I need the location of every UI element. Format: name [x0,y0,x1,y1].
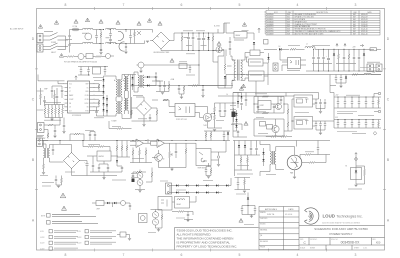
transformer T2 core [117,79,119,97]
c27 label [236,193,246,195]
wire c23 [219,141,227,165]
wire co4 [358,97,360,108]
capacitor CA5 plates [104,70,106,71]
wire caps bank [52,86,62,105]
diode DC4 body [103,97,105,99]
values out caps [337,111,357,113]
capacitor CO12 plates [372,123,374,124]
junction g4 [292,121,293,122]
r27 values [305,151,314,153]
junction h2 366 [365,118,368,121]
h top labels [346,94,360,96]
svg-text:7: 7 [123,3,125,7]
wire r32 [172,212,193,216]
led labels [148,232,156,234]
wire r10 r11 [208,103,223,128]
gate labels [94,80,102,82]
revision row X06 [267,28,368,31]
capacitor CF2 plates [178,88,180,89]
svg-text:8: 8 [65,3,67,7]
wire vert286 [285,93,287,97]
resistor R10b element [163,99,168,101]
MB2 circle [140,216,145,221]
revision row X04 [267,23,368,26]
capacitor C6 plates [229,48,231,49]
wire c26 [317,141,319,155]
r4 value [227,65,232,67]
wire u4 conns [254,97,278,105]
wire co11 [365,120,367,129]
bridge rectifier BR1 [153,32,170,49]
t4 label [40,175,48,177]
svg-text:CT: CT [69,91,71,93]
i text bottom2 [42,185,51,187]
label small right [348,188,362,190]
legend note 1 text [52,214,80,216]
svg-text:0034640: 0034640 [267,21,273,23]
transformer T2 winding C [116,101,117,114]
re5 label [112,125,121,127]
capacitor CX4 plates [109,39,112,40]
switch values [44,31,53,33]
capacitor CO5 plates [365,102,367,103]
legend row 1 col1 text2 [54,232,76,234]
junction bulk 203.5 [203,33,204,34]
capacitor CO8 plates [344,123,346,124]
svg-text:14-28V: 14-28V [40,237,45,239]
ground aux [161,93,164,95]
u6 label [296,97,308,99]
wire cg9 [324,121,326,130]
svg-text:X05: X05 [287,26,290,28]
transformer T4 winding B [48,148,49,158]
fb values [216,120,224,122]
capacitor CJ3 plates [205,170,207,171]
legend row 4 col1 text [54,247,78,249]
switch SW1 pole A [50,33,66,37]
capacitor C5 plates [229,41,231,42]
u10 label2 [131,177,138,179]
IC U8 body [97,151,111,161]
ground c14b [62,132,65,134]
wire u3 [200,107,208,129]
revision row X03 [267,20,368,23]
wire cg13 [245,93,247,107]
resistor R30 element [364,170,366,176]
diode DM1 body [176,184,178,186]
legend row 1 col2 text [90,230,116,232]
svg-text:08-14-09: 08-14-09 [361,14,368,16]
capacitor CE2 plates [43,100,45,101]
svg-text:PGN: PGN [85,110,88,112]
resistor RG3 element [263,112,269,114]
d row bottom labels [360,67,378,69]
svg-text:+18V: +18V [352,47,356,49]
svg-text:X01: X01 [287,17,290,19]
legend sample ground [128,239,131,241]
svg-text:COMP: COMP [69,99,73,101]
capacitor CG6 plates [324,102,326,103]
wire d5 [268,53,270,63]
choke L2 winding A [106,28,116,29]
wire y caps [100,44,102,52]
svg-text:POWER: POWER [51,42,56,44]
wire fan res [130,148,152,163]
wire t3 out [144,77,163,86]
relay K1 body [234,32,247,39]
wire rb2 [48,105,50,118]
l1 label [82,32,89,34]
resistor RJ2 element [151,172,153,177]
wire cg5 [320,99,322,109]
wire rg1 [231,124,242,130]
warning symbol W13 [239,219,243,223]
wire cd2 [318,49,320,71]
ground u8 [102,178,105,180]
junction dm1 [185,184,188,187]
capacitor CA1 plates [68,35,70,36]
l2 label [106,37,110,39]
junction lr 60 [59,139,62,142]
diode DC8 body [106,104,108,106]
wire rf2 [188,85,226,87]
K2 coil [177,199,185,200]
r17 values [88,143,100,145]
LED2 ring [152,219,158,225]
wire r24 down [159,143,187,167]
transistor Q3 body [155,154,163,162]
resistor RJ5 element [210,169,212,174]
wire cd6 [353,49,355,71]
m labels [244,224,254,226]
inductor L3 winding lower [119,42,125,51]
wire r30 [356,166,365,184]
capacitor C24 plates [250,148,252,149]
loop2 text [258,133,268,135]
svg-text:AC LINE INPUT: AC LINE INPUT [10,28,24,31]
inductor L3 winding upper [118,31,124,40]
svg-text:1 of 1: 1 of 1 [363,247,367,249]
S1 inner switch [199,152,207,162]
svg-text:REF: REF [86,84,89,86]
wire t1 pri [230,56,236,88]
resistor R20 [121,146,123,151]
junction a2 b [104,65,107,68]
svg-text:7: 7 [123,253,125,257]
transformer T1 primary [234,60,235,80]
junction h 366 [365,96,368,99]
IC U1 PWM controller [65,81,93,113]
resistor R2 [181,36,183,41]
diode DC1 body [103,79,105,81]
diode DK2 body [262,159,264,161]
wire opamps [130,139,172,145]
wire vert 318 [233,93,319,100]
capacitor CJ1 plates [175,151,177,152]
capacitor CO10 plates [358,123,360,124]
junction ac bus 1 [125,29,126,30]
resistor R23 [145,150,147,155]
svg-text:DESCRIPTION: DESCRIPTION [316,12,328,14]
ground leds [157,230,160,232]
fuse F1 [73,28,79,31]
inductor LH1 [364,73,371,74]
wire cb1 [137,65,200,71]
i top labels [85,129,94,131]
ground br2 [142,125,145,127]
transformer T2 winding D [121,101,122,114]
wire rj3 [205,131,207,141]
wire ci1 [117,166,122,172]
wire fb1 [377,48,382,50]
diode D13 element [355,171,357,173]
svg-text:KBU BRIDGE RECTIFIER: KBU BRIDGE RECTIFIER [154,52,170,54]
resistor RG1 element [232,123,238,125]
choke L1 winding B [83,42,93,43]
diode D1 body [207,37,209,39]
wire cy2 [125,30,127,52]
wire rb4 [55,105,57,118]
transformer T4 winding A [44,148,45,158]
transistor QG1 body [272,125,279,132]
bulk values [186,45,192,47]
crystal Y1 body [96,201,104,206]
svg-text:0034790: 0034790 [267,31,273,33]
re6 label [37,90,44,92]
resistor R6b [48,124,53,126]
junction rail85 a [202,85,203,86]
svg-text:01-22-10: 01-22-10 [361,29,368,31]
k values2 [237,173,253,175]
capacitor CG2 plates [273,106,275,107]
capacitor CF4 plates [189,68,191,69]
fan motor M1 [287,155,302,170]
junction lr 83 [82,139,85,142]
wire r6c [47,138,49,139]
capacitor CO11 plates [365,123,367,124]
wire c14 [54,125,56,136]
junction h2 373 [372,118,375,121]
transformer T1 core [236,60,238,81]
breaker CB1 body [138,62,144,68]
svg-text:L4: L4 [306,44,308,46]
legend note 1 text line2 [52,216,96,218]
transformer T3 winding A [138,75,139,88]
capacitor CG11 plates [280,99,282,100]
junction h 345 [344,96,347,99]
capacitor CO4 plates [358,102,360,103]
resistor RH1 element [378,100,380,105]
junction lr 158.5 [157,139,160,142]
diode D7 body [363,54,365,56]
varistor RV1 element [134,32,136,37]
svg-text:-15V: -15V [335,117,338,119]
diode DH1 body [345,77,347,79]
svg-text:DATE: DATE [288,208,294,211]
wire a2 row [64,55,114,58]
wire cg6 [324,99,326,109]
wire dm vert [170,178,231,193]
resistor R7 [348,54,350,59]
wire h top [226,75,381,86]
svg-text:NOTE:: NOTE: [41,216,46,218]
bulk mid labels [186,53,195,55]
wire ci2 [89,132,91,141]
capacitor C27 plates [237,183,239,184]
j8 label [37,135,43,137]
junction g3 [233,103,234,104]
wire cf5 [152,73,160,81]
wire dk1 dk2 [263,148,265,166]
snubber module body [264,40,269,45]
resistor RI2 element [74,133,80,135]
wire cd4 [328,49,330,71]
junction rail85 b [178,85,179,86]
wire m1 [284,147,295,177]
wire rh1 rh2 [378,97,380,128]
indicator MB2 body [139,214,148,223]
svg-text:SHEET: SHEET [354,247,359,249]
resistor RG2 element [263,96,269,98]
optocoupler U10 sensor ring [137,180,143,186]
wire ic out bus [93,84,104,111]
diode D14 body [107,202,109,204]
choke L2 winding B [106,42,116,43]
svg-text:GND: GND [85,91,88,93]
junction h2 338 [337,118,340,121]
warning symbol W16 [60,193,66,198]
wire l1 links [70,30,105,44]
svg-text:VC: VC [87,87,89,89]
wire ci0 [52,145,54,156]
capacitor CY2 plates [125,46,127,47]
junction bulkb 188.5 [188,50,189,51]
wire fb tap [211,114,215,118]
wire y128 run [109,121,132,129]
svg-text:09-21-09: 09-21-09 [361,19,368,21]
svg-text:VREF: VREF [44,89,48,91]
arrow up D1 [336,44,338,47]
wire b minus rail [218,95,294,97]
wire rb1 [44,105,46,118]
svg-text:DWG. NO.: DWG. NO. [331,239,339,241]
wire rj2 [146,168,152,183]
wire relay [226,28,254,40]
capacitor CO6 plates [372,102,374,103]
optocoupler U2 [175,104,195,117]
capacitor C19 plates [92,165,94,166]
junction ac bus 2 [125,43,126,44]
svg-text:6: 6 [181,253,183,257]
junction h2 359 [358,118,361,121]
ground fan [170,169,173,171]
svg-text:X00: X00 [376,241,381,245]
svg-text:0-14V: 0-14V [40,231,44,233]
wire bank gnd [51,118,53,120]
junction drail 354 [354,49,355,50]
resistor RB1 [44,108,46,114]
thermistor RT1 element [218,47,220,51]
capacitor C23 plates [218,156,219,158]
wire rv1 [134,30,136,44]
diode D6 body [333,54,335,56]
capacitor C29 plates [254,209,256,210]
legend sample wire [117,235,130,239]
resistor RM1 element [136,171,142,173]
switch SW1 pole B [50,37,66,41]
resistor R1 [100,33,102,38]
junction drail2 328.5 [328,71,329,72]
wire rb3 [51,105,53,118]
legend note 2 text line2 [52,223,98,225]
svg-text:SHM T/A: SHM T/A [267,213,275,216]
transformer T2 winding B [121,79,122,97]
wire r16b [43,169,45,172]
wire r2 [181,33,183,51]
resistor RF2 element [192,85,198,87]
capacitor C4 plates [202,38,205,39]
svg-text:Technologies Inc.: Technologies Inc. [337,214,363,218]
transformer T3 core [139,75,141,88]
capacitor CG4 plates [315,102,317,103]
wire co9 [351,120,353,129]
diode DC3 body [103,91,105,93]
resistor R7d element [98,100,100,105]
wire ci3 [90,132,95,141]
transformer T2 winding H [127,98,128,111]
svg-text:CHECKED: CHECKED [260,218,268,220]
thermal switch S1 body [196,149,211,166]
wire cg11 [280,97,282,105]
svg-text:L REF: L REF [96,209,100,211]
junction g2 [284,104,285,105]
wire dark module [233,108,235,122]
ferrite bead FB1 body [370,48,377,51]
revision row X00 [267,13,368,16]
junction ac 110 [110,29,111,30]
junction bulk 208.5 [208,33,209,34]
wire l4 out [315,48,374,50]
wire u11 [245,53,264,58]
wire c16 [156,81,169,92]
connector J8 left edge [37,138,43,147]
resistor R7c element [98,84,100,89]
t3 label [133,95,143,97]
switch SW2 pole B [50,46,66,50]
resistor R5 [290,48,296,50]
wire vert 224 [224,23,226,56]
wire t1 sec taps [241,57,249,80]
wire r1 [100,30,102,44]
svg-text:3: 3 [355,3,357,7]
svg-text:28-42V: 28-42V [77,243,82,245]
g right labels [295,112,309,114]
wire d18 [247,193,249,215]
resistor R22 [139,150,141,155]
wire hs to rail [256,63,268,96]
wire dm row1 [170,185,231,187]
junction drail2 338.5 [338,71,339,72]
inductor L5 body [121,201,126,206]
relay K2 body [175,197,190,209]
legend row 3 col1 text2 [54,243,76,245]
wire co8 [344,120,346,129]
svg-text:0034566: 0034566 [267,17,273,19]
svg-text:3: 3 [355,253,357,257]
capacitor C13 plates [61,90,63,91]
diode DG2 body [241,96,243,98]
capacitor CX3 plates [109,34,112,35]
